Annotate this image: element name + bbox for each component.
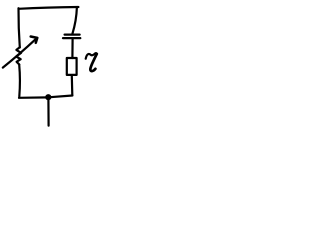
arrow head <box>31 37 38 43</box>
wire: between capacitor and resistor <box>71 39 73 58</box>
label r <box>86 53 97 59</box>
wire: right vertical upper <box>72 7 77 34</box>
wire: bottom left segment <box>19 96 48 99</box>
wire: bottom right segment <box>48 96 72 98</box>
junction node (dot) <box>45 94 51 100</box>
capacitor top plate <box>65 33 80 35</box>
wire: left vertical lower <box>18 65 21 97</box>
capacitor bottom plate <box>63 37 80 39</box>
wire: bottom terminal stub <box>47 98 49 126</box>
arrow (variable adjustment) shaft <box>3 38 37 67</box>
resistor r (box) <box>67 58 77 75</box>
wire: left vertical upper <box>18 8 19 47</box>
rheostat squiggle (variable element body) <box>16 47 21 64</box>
wire: right vertical lower (below resistor) <box>71 76 74 96</box>
wire: top horizontal <box>19 7 79 9</box>
